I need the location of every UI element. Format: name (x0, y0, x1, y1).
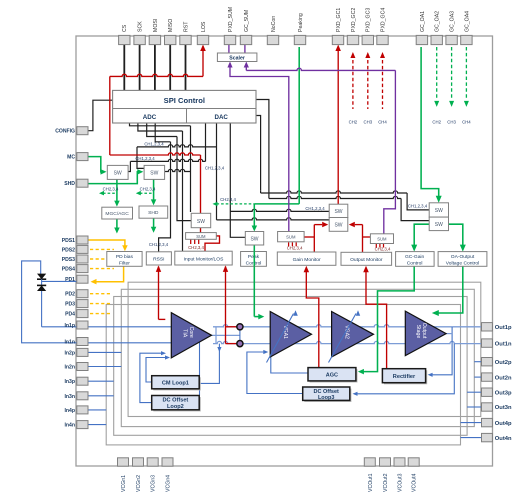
pin NoCon (267, 35, 278, 44)
wire TIA tip to DC Offset Loop2 (199, 342, 201, 396)
pin PXD_SUM (224, 35, 235, 44)
svg-text:GC_OA3: GC_OA3 (450, 11, 456, 32)
pin LOS (197, 35, 208, 44)
svg-text:Scaler: Scaler (229, 55, 245, 61)
svg-text:In2p: In2p (65, 350, 75, 356)
svg-text:CH2,3,4: CH2,3,4 (103, 187, 119, 192)
svg-text:Filter: Filter (119, 260, 130, 266)
svg-text:VCGn3: VCGn3 (151, 475, 157, 492)
wire Out2n stub (474, 376, 482, 378)
GC-Gain Control block (396, 252, 435, 267)
Scaler block (217, 53, 257, 62)
svg-text:CH2,3,4: CH2,3,4 (375, 247, 391, 252)
RSSI block (146, 252, 171, 265)
svg-text:MGC/AGC: MGC/AGC (105, 211, 129, 217)
bus H1 CH1234 (137, 145, 217, 147)
svg-text:SW: SW (250, 237, 258, 243)
svg-text:Output: Output (421, 323, 427, 339)
channel CH2 rectangle (121, 289, 474, 426)
PD bias Filter block (107, 252, 142, 267)
switch SW1 MC (107, 165, 128, 179)
pin In1n (77, 338, 88, 346)
svg-text:CH2: CH2 (349, 120, 358, 125)
svg-text:VCOut3: VCOut3 (398, 473, 404, 492)
svg-text:Voltage Control: Voltage Control (446, 261, 479, 267)
wire DAC right to SW bus A (256, 116, 261, 191)
wire Out4p stub (461, 422, 482, 424)
wire AGC to VGA1 gain (271, 354, 308, 373)
SUM CH234 ticks input monitor (190, 239, 192, 244)
amplifier VGA1 (270, 312, 311, 358)
svg-text:PD bias: PD bias (116, 254, 134, 260)
pin GC_OA3 (446, 35, 457, 44)
pin PDS4 (77, 265, 88, 273)
SPI Control block (113, 90, 256, 123)
svg-text:SUM: SUM (196, 234, 206, 239)
dashed CH234 peaking (217, 203, 255, 205)
svg-text:Out4n: Out4n (495, 436, 512, 442)
wire PD1 to diode junction (41, 279, 43, 285)
svg-text:PXD_GC4: PXD_GC4 (380, 8, 386, 32)
pin In3p (77, 377, 88, 385)
pin VCGn2 (133, 458, 144, 466)
dashed CH234 branch left SW1 (103, 192, 117, 194)
wire GC_OA3 dashed (451, 47, 453, 98)
pin Out1n (482, 339, 493, 347)
svg-text:Control: Control (407, 261, 423, 267)
svg-text:SW: SW (197, 219, 205, 225)
pin Out1p (482, 323, 493, 331)
wire SHD box down arrow (153, 218, 155, 228)
switch SW right pair bottom (429, 217, 448, 231)
wire GC_OA1 to SW (421, 47, 439, 197)
svg-text:LOS: LOS (201, 21, 207, 32)
pin PXD_GC3 (362, 35, 373, 44)
switch SW peak control (245, 232, 263, 246)
pin PXD_GC4 (377, 35, 388, 44)
svg-text:SCK: SCK (138, 21, 144, 32)
svg-text:OA-Output: OA-Output (451, 254, 475, 260)
wire VGA2 gain arrow (329, 314, 357, 363)
wire In1n to TIA (88, 342, 172, 344)
pin PXD_GC1 (332, 35, 343, 44)
dashed PDS2 (90, 248, 114, 250)
svg-text:In1p: In1p (65, 323, 75, 329)
pin In1p (77, 321, 88, 329)
wire DAC drop to H7 and Peak SW (230, 123, 245, 237)
amplifier Core TIA (171, 313, 211, 358)
svg-text:CH4: CH4 (462, 120, 471, 125)
green line through Peak Control (253, 251, 255, 266)
wire CS to SPI (123, 45, 125, 91)
wire SW to GC-Gain Control (414, 224, 429, 246)
dashed PD2 (90, 293, 112, 295)
svg-text:Core: Core (188, 327, 194, 338)
svg-text:TIA: TIA (182, 329, 188, 338)
wire Input Monitor tap (225, 267, 227, 344)
AGC block (310, 369, 358, 382)
svg-text:GC-Gain: GC-Gain (405, 254, 425, 260)
wire In4n (88, 424, 107, 426)
bus H4 SW2 to braid (165, 169, 191, 171)
svg-text:SW: SW (435, 208, 443, 214)
SHD block (139, 206, 168, 218)
svg-text:Out3n: Out3n (495, 405, 512, 411)
pin VCGn3 (147, 458, 158, 466)
svg-text:Gain Monitor: Gain Monitor (293, 257, 321, 263)
wire SUM to Input Monitor (205, 236, 220, 251)
svg-text:VCOut1: VCOut1 (368, 473, 374, 492)
pin In2n (77, 363, 88, 371)
svg-text:PD2: PD2 (65, 292, 75, 298)
wire output sense to DC Offset Loop3 (355, 344, 455, 394)
wire braid vertical to SW left (177, 137, 191, 221)
svg-text:GC_OA4: GC_OA4 (464, 11, 470, 32)
svg-text:PDS1: PDS1 (62, 238, 75, 244)
svg-text:Input Monitor/LOS: Input Monitor/LOS (184, 256, 224, 262)
svg-text:CH1,2,3,4: CH1,2,3,4 (149, 242, 169, 247)
dashed PDS3 (90, 258, 114, 260)
svg-text:In2n: In2n (65, 365, 75, 371)
svg-text:DC Offset: DC Offset (314, 389, 340, 395)
wire PXD_SUM stub (228, 45, 230, 54)
wire MISO to SPI (169, 45, 171, 91)
pin Out3n (482, 403, 493, 411)
wire SW2 to SHD box (153, 179, 155, 201)
dashed PDS4 (90, 268, 114, 270)
pin Out3p (482, 388, 493, 396)
wire GC_OA2 dashed (436, 47, 438, 98)
wire SHD to SW2 (88, 172, 139, 184)
diode D1 (37, 274, 46, 280)
wire MGC/AGC down arrow (116, 219, 118, 229)
svg-text:VCOut2: VCOut2 (383, 473, 389, 492)
svg-text:CH2,3,4: CH2,3,4 (287, 246, 303, 251)
wire In3n (88, 395, 114, 397)
wire ADC bus stair 4 (155, 123, 170, 142)
wire TIA tip junction (212, 334, 240, 336)
svg-text:Control: Control (246, 260, 262, 266)
svg-text:RST: RST (183, 21, 189, 32)
wire braid vertical to RSSI (159, 142, 171, 252)
svg-text:SW: SW (114, 171, 122, 177)
svg-text:PXD_SUM: PXD_SUM (228, 7, 234, 32)
svg-text:CH1,2,3,4: CH1,2,3,4 (305, 206, 325, 211)
svg-text:CH1,2,3,4: CH1,2,3,4 (144, 141, 164, 146)
wire SUM output monitor to Scaler (246, 68, 395, 70)
amplifier VGA2 (332, 312, 374, 358)
pin In4p (77, 406, 88, 414)
pin Out4n (482, 433, 493, 441)
pin PD3 (77, 300, 88, 308)
svg-text:Out2p: Out2p (495, 360, 512, 366)
pin In4n (77, 421, 88, 429)
SUM CH234 ticks output monitor (375, 244, 377, 248)
svg-text:SHD: SHD (148, 210, 159, 216)
Gain Monitor block (277, 252, 336, 265)
wire PXD_GC1 to SW (337, 51, 339, 204)
amplifier Output Stage (405, 311, 446, 356)
pin GC_OA4 (461, 35, 472, 44)
wire output sense to Rectifier (430, 327, 453, 375)
wire GC_OA4 dashed (465, 47, 467, 98)
svg-text:SUM: SUM (377, 237, 387, 242)
Rectifier block (384, 370, 427, 384)
wire ADC bus stair 3 (147, 123, 177, 137)
wire PXD_GC2 dashed (352, 60, 354, 109)
svg-text:Output Monitor: Output Monitor (350, 257, 383, 263)
wire RSSI tap (158, 267, 160, 320)
wire Output Stage tip (446, 333, 452, 335)
pin MC (77, 153, 88, 161)
wire CONFIG to SPI (88, 100, 113, 131)
wire MOSI to SPI (154, 45, 156, 91)
summer SUM gain monitor (278, 232, 305, 242)
svg-text:PD1: PD1 (65, 277, 75, 283)
switch SW2 SHD (144, 165, 165, 179)
switch SW mid pair bottom (329, 218, 348, 232)
wire SW1 to MGC/AGC (116, 179, 118, 202)
wire braid vertical to SW top (190, 126, 192, 212)
wire LOS output (110, 74, 203, 76)
wire PXD_GC3 dashed (367, 60, 369, 109)
svg-text:In1n: In1n (65, 340, 75, 346)
pin MOSI (149, 35, 160, 44)
wire SPI right to SW bus B (256, 100, 269, 197)
rail Out1p (213, 325, 482, 327)
wire In3p (88, 380, 114, 382)
pin RST (180, 35, 191, 44)
svg-text:RSSI: RSSI (153, 257, 164, 263)
dashed PD3 (90, 303, 112, 305)
pin VCOut3 (394, 458, 405, 466)
Output Monitor block (341, 252, 392, 265)
svg-text:PD3: PD3 (65, 302, 75, 308)
svg-text:Out4p: Out4p (495, 421, 512, 427)
svg-text:VCGn4: VCGn4 (166, 475, 172, 492)
channel CH4 rectangle (106, 305, 460, 445)
OA-Output Voltage Control block (438, 252, 487, 267)
wire PD bias Filter to PD1 (95, 267, 124, 282)
DC Offset Loop3 block (304, 389, 351, 402)
wire SUM output monitor to SW and Output Monitor (363, 236, 371, 238)
dashed PD4 (90, 313, 112, 315)
pin PD1 (77, 275, 88, 283)
svg-text:CM Loop1: CM Loop1 (162, 381, 189, 387)
Peak Control block (241, 252, 267, 267)
wire DC Offset Loop2 feedback to TIA (140, 353, 164, 402)
svg-text:VCOut4: VCOut4 (412, 473, 418, 492)
svg-text:GC_SUM: GC_SUM (244, 10, 250, 32)
wire Peak Control to VGA1 (253, 245, 255, 317)
wire Output Monitor to Rectifier (366, 268, 387, 369)
svg-text:CH1,2,3,4: CH1,2,3,4 (135, 156, 155, 161)
svg-text:SPI Control: SPI Control (164, 96, 205, 105)
wire CM Loop1 feedback to TIA (146, 358, 169, 383)
svg-text:MC: MC (67, 155, 75, 161)
pin SCK (134, 35, 145, 44)
dashed CH234 branch left SW2 (140, 192, 154, 194)
svg-text:Peaking: Peaking (298, 13, 304, 32)
wire SW to OA-Output Voltage Control (449, 224, 463, 246)
svg-text:CONFIG: CONFIG (55, 129, 75, 135)
wire Out3p stub (467, 391, 482, 393)
wire RST to SPI (185, 45, 187, 91)
svg-text:CH2,3,4: CH2,3,4 (188, 245, 204, 250)
wire OA control to Output Stage (436, 266, 463, 313)
wire Gain Monitor to AGC (306, 268, 319, 368)
wire Out4n stub (461, 437, 482, 439)
svg-text:CH1,2,3,4: CH1,2,3,4 (205, 166, 225, 171)
rail Out1n (213, 341, 482, 343)
svg-text:CH2,3,4: CH2,3,4 (140, 187, 156, 192)
svg-text:Out1p: Out1p (495, 325, 512, 331)
pin CONFIG (77, 127, 88, 135)
wire Peaking to SW (298, 47, 300, 204)
wire DAC drop to H8 (216, 123, 218, 220)
pin VCGn4 (162, 458, 173, 466)
wire Out3n stub (467, 406, 482, 408)
wire VGA1 gain arrow (267, 314, 294, 363)
channel CH3 rectangle (114, 297, 467, 436)
svg-text:SW: SW (435, 222, 443, 228)
wire SUM gain monitor to SW and Gain Monitor (304, 236, 314, 238)
wire MC to SW1 (88, 157, 103, 172)
svg-text:AGC: AGC (326, 373, 338, 379)
channel CH1 rectangle (128, 282, 481, 416)
summer SUM input monitor (186, 233, 217, 240)
wire GC_SUM stub (244, 45, 246, 54)
svg-text:MISO: MISO (168, 19, 174, 32)
wire rail to CM Loop1 (199, 344, 219, 384)
svg-text:In3p: In3p (65, 379, 75, 385)
svg-text:In4p: In4p (65, 408, 75, 414)
wire Out2p stub (474, 361, 482, 363)
pin Out2n (482, 373, 493, 381)
svg-text:MOSI: MOSI (153, 19, 159, 32)
wire In4p (88, 409, 107, 411)
pin PXD_GC2 (347, 35, 358, 44)
svg-text:SW: SW (150, 171, 158, 177)
svg-text:PXD_GC2: PXD_GC2 (351, 8, 357, 32)
svg-text:SW: SW (334, 223, 342, 229)
junction node output N (237, 341, 243, 347)
svg-text:In3n: In3n (65, 394, 75, 400)
svg-text:SHD: SHD (64, 181, 75, 187)
pin VCOut2 (380, 458, 391, 466)
pin SHD (77, 179, 88, 187)
svg-text:Stage: Stage (415, 325, 421, 339)
pin MISO (165, 35, 176, 44)
SUM CH234 ticks gain monitor (288, 242, 290, 246)
pin VCOut4 (408, 458, 419, 466)
svg-text:CH1,2,3,4: CH1,2,3,4 (408, 204, 428, 209)
svg-text:PDS3: PDS3 (62, 257, 75, 263)
svg-text:CH3: CH3 (447, 120, 456, 125)
pin PD2 (77, 290, 88, 298)
svg-text:CH2: CH2 (432, 120, 441, 125)
wire ADC bus stair 2 (138, 123, 183, 131)
pin Out4p (482, 418, 493, 426)
junction node output P (237, 324, 243, 330)
svg-text:GC_OA2: GC_OA2 (435, 11, 441, 32)
wire In2n (88, 366, 122, 368)
pin In2p (77, 348, 88, 356)
svg-text:SW: SW (334, 209, 342, 215)
svg-text:CH2,3,4: CH2,3,4 (220, 197, 236, 202)
wire ADC bus stair 1 (130, 123, 191, 126)
svg-text:Out2n: Out2n (495, 375, 512, 381)
pin Peaking (294, 35, 305, 44)
svg-text:PXD_GC3: PXD_GC3 (366, 8, 372, 32)
bus H3 CH1234 to SW1 (130, 159, 205, 161)
wire DC Offset Loop3 to VGA1 (247, 352, 303, 394)
svg-text:VCGn1: VCGn1 (121, 475, 127, 492)
wire In1p (42, 326, 172, 328)
diode D2 (37, 284, 46, 286)
svg-text:VCGn2: VCGn2 (136, 475, 142, 492)
svg-text:SUM: SUM (286, 235, 296, 240)
svg-text:PDS4: PDS4 (62, 267, 75, 273)
pin PDS3 (77, 255, 88, 263)
svg-text:PD4: PD4 (65, 312, 75, 318)
svg-text:In4n: In4n (65, 423, 75, 429)
pin GC_OA1 (416, 35, 427, 44)
svg-text:PDS2: PDS2 (62, 247, 75, 253)
wire DAC drop to H3 (205, 123, 207, 161)
wire SW to SUM input monitor (200, 228, 202, 233)
wire PXD_GC4 dashed (382, 60, 384, 109)
svg-text:PXD_GC1: PXD_GC1 (336, 8, 342, 32)
wire GC-Gain Control to AGC (362, 266, 414, 371)
svg-text:GC_OA1: GC_OA1 (420, 11, 426, 32)
svg-text:Loop3: Loop3 (318, 395, 335, 401)
wire In2p (88, 351, 122, 353)
DC Offset Loop2 block (153, 397, 201, 411)
wire braid vertical to Input Monitor (182, 131, 184, 251)
svg-text:CH3: CH3 (363, 120, 372, 125)
svg-text:Rectifier: Rectifier (393, 374, 416, 380)
svg-text:DAC: DAC (214, 114, 228, 121)
pin In3n (77, 392, 88, 400)
pin VCOut1 (364, 458, 375, 466)
MGC/AGC block (102, 207, 133, 219)
svg-text:NoCon: NoCon (271, 16, 277, 32)
switch SW mid pair top (329, 204, 348, 217)
pin GC_SUM (240, 35, 251, 44)
wire In1n external bias loop (22, 261, 77, 343)
switch SW right pair top (429, 203, 448, 217)
pin PD4 (77, 310, 88, 318)
wire SCK to SPI (139, 45, 141, 91)
switch SW input monitor (191, 213, 211, 227)
svg-text:Out1n: Out1n (495, 341, 512, 347)
pin PDS1 (77, 236, 88, 244)
svg-text:Loop2: Loop2 (167, 404, 184, 410)
svg-text:Out3p: Out3p (495, 390, 512, 396)
pin Out2p (482, 358, 493, 366)
pin PDS2 (77, 245, 88, 253)
wire SUM gain monitor to Scaler (230, 68, 289, 232)
CM Loop1 block (153, 377, 201, 390)
pin CS (119, 35, 130, 44)
svg-text:ADC: ADC (143, 114, 157, 121)
pin VCGn1 (118, 458, 129, 466)
svg-text:CH4: CH4 (378, 120, 387, 125)
pin GC_OA2 (431, 35, 442, 44)
svg-text:DC Offset: DC Offset (163, 398, 189, 404)
chip outline (76, 36, 493, 466)
